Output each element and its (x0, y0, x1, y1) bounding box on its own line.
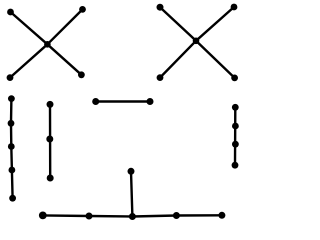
node: bottom horizontal dot 2 (86, 213, 93, 220)
node: left vertical dot 2 (8, 120, 15, 127)
node: right X top-right dot (231, 4, 238, 11)
node: bottom horizontal dot 1 (39, 212, 47, 220)
wire: right X, top-right arm (196, 7, 234, 41)
wire: bottom horizontal line (43, 215, 222, 216)
wire: left X, bottom-right arm (47, 44, 81, 75)
node: left X top-left dot (7, 9, 14, 16)
node: left vertical dot 3 (8, 143, 15, 150)
wire: left X, top-left arm (11, 12, 48, 44)
wire: bottom T vertical stub (131, 171, 132, 216)
node: middle horizontal right dot (147, 98, 154, 105)
node: left X bottom-right dot (78, 71, 85, 78)
node: left vertical dot 4 (9, 167, 16, 174)
node: middle horizontal left dot (92, 98, 99, 105)
wire: middle horizontal segment (96, 100, 150, 102)
node: bottom horizontal dot 4 (173, 212, 180, 219)
node: left vertical dot 5 (9, 195, 16, 202)
node: bottom horizontal junction dot (129, 213, 136, 220)
wire: mid-left vertical line (49, 104, 52, 178)
wire: right X, bottom-left arm (160, 41, 196, 78)
node: mid-left vertical dot 3 (47, 175, 54, 182)
node: right vertical dot 4 (232, 162, 239, 169)
wire: left X, top-right arm (47, 9, 82, 44)
wire: right X, bottom-right arm (196, 41, 235, 78)
node: bottom T top dot (128, 168, 135, 175)
node: mid-left vertical dot 2 (46, 136, 53, 143)
wire: left X, bottom-left arm (10, 44, 47, 77)
node: right vertical dot 3 (232, 141, 239, 148)
node: right X center dot (193, 38, 200, 45)
wire: right X, top-left arm (160, 7, 196, 41)
wire: right vertical line (234, 107, 237, 165)
node: left vertical dot 1 (8, 95, 15, 102)
node: right X bottom-right dot (231, 75, 238, 82)
node: right vertical dot 1 (232, 104, 239, 111)
node: left X bottom-left dot (7, 74, 14, 81)
node: bottom horizontal dot 5 (218, 212, 225, 219)
node: right X top-left dot (157, 4, 164, 11)
node: right vertical dot 2 (232, 123, 239, 130)
node: left X center dot (44, 41, 51, 48)
node: right X bottom-left dot (157, 74, 164, 81)
node: left X top-right dot (79, 6, 86, 13)
node: mid-left vertical dot 1 (47, 101, 54, 108)
wire: left vertical line (11, 99, 13, 199)
